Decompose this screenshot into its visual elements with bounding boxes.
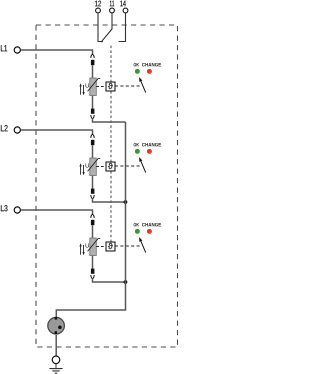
terminal 12 label: [95, 1, 101, 7]
mechanical linkage dashed line: [110, 46, 112, 243]
varistor body: [90, 238, 97, 256]
wire to bus: [93, 198, 126, 202]
thermal disconnector box: [106, 162, 115, 171]
label OK: [134, 143, 139, 146]
terminal 11 circle: [110, 8, 115, 13]
label CHANGE: [142, 143, 161, 146]
wire to ground: [55, 364, 57, 368]
U arrows down: [83, 165, 85, 173]
ground symbol: [49, 369, 62, 374]
plug pin top: [91, 140, 95, 145]
thermal disconnector box: [106, 82, 115, 91]
plug fork contact top: [91, 135, 94, 138]
LED red CHANGE: [147, 229, 152, 234]
spark gap body: [48, 317, 65, 334]
LED green OK: [135, 229, 140, 234]
wire L2 feed: [21, 130, 93, 135]
spark gap inner dot: [58, 326, 62, 330]
plug pin bottom: [91, 109, 95, 114]
varistor body: [90, 78, 97, 96]
theta symbol: [108, 163, 113, 169]
node L2 label: [1, 125, 8, 131]
thermal disconnector box: [106, 242, 115, 251]
terminal L3 circle: [14, 207, 20, 213]
plug fork contact bottom: [91, 195, 94, 198]
LED red CHANGE: [147, 149, 152, 154]
dashed link varistor to disconnector: [96, 166, 106, 168]
wire L1 feed: [21, 50, 93, 55]
label U: [86, 164, 90, 168]
wire to bus: [93, 118, 126, 122]
terminal 14 label: [120, 1, 126, 7]
state pointer arrow: [141, 81, 146, 92]
node L3 label: [1, 205, 8, 211]
wire module branch: [92, 145, 94, 188]
wire module branch: [92, 65, 94, 108]
varistor body: [90, 158, 97, 176]
varistor diagonal: [88, 79, 101, 92]
plug fork contact bottom: [91, 275, 94, 278]
label CHANGE: [142, 223, 161, 226]
plug pin top: [91, 60, 95, 65]
state pointer arrow: [141, 161, 146, 172]
label U: [86, 84, 90, 88]
label OK: [134, 63, 139, 66]
dashed link disconnector to indicator: [115, 165, 141, 167]
U arrows up: [80, 246, 82, 255]
varistor diagonal: [88, 159, 101, 172]
spark gap bottom electrode: [55, 331, 57, 334]
junction dot L2-bus: [124, 200, 128, 204]
changeover switch: contact 14 lead: [119, 13, 126, 42]
U arrows up: [80, 166, 82, 175]
earth terminal circle: [52, 356, 60, 364]
U arrows down: [83, 85, 85, 93]
plug pin top: [91, 220, 95, 225]
terminal 14 circle: [123, 8, 128, 13]
label CHANGE: [142, 63, 161, 66]
node L1 label: [1, 45, 7, 51]
terminal 11 label: [110, 1, 114, 7]
spark gap top electrode: [55, 317, 57, 320]
terminal L2 circle: [14, 127, 20, 133]
plug pin bottom: [91, 189, 95, 194]
state pointer arrow: [141, 241, 146, 252]
plug fork contact top: [91, 55, 94, 58]
label OK: [134, 223, 139, 226]
varistor diagonal: [88, 239, 101, 252]
dashed link varistor to disconnector: [96, 86, 106, 88]
U arrows down: [83, 245, 85, 253]
theta symbol: [108, 243, 113, 249]
terminal L1 circle: [14, 47, 20, 53]
LED green OK: [135, 69, 140, 74]
wire spark gap to earth terminal: [55, 335, 57, 356]
wire to bus: [93, 278, 126, 282]
dashed link disconnector to indicator: [115, 85, 141, 87]
enclosure dashed border: [36, 25, 178, 347]
plug fork contact bottom: [91, 115, 94, 118]
junction dot L3-bus: [124, 280, 128, 284]
wire module branch: [92, 225, 94, 268]
changeover switch: contact 12 lead: [98, 13, 103, 42]
dashed link disconnector to indicator: [115, 245, 141, 247]
terminal 12 circle: [96, 8, 101, 13]
LED red CHANGE: [147, 69, 152, 74]
U arrows up: [80, 86, 82, 95]
plug fork contact top: [91, 215, 94, 218]
wire L3 feed: [21, 210, 93, 215]
theta symbol: [108, 83, 113, 89]
changeover switch: common 11 lead with moving arm: [101, 13, 112, 42]
common bus wire: [56, 122, 125, 317]
dashed link varistor to disconnector: [96, 246, 106, 248]
LED green OK: [135, 149, 140, 154]
plug pin bottom: [91, 269, 95, 274]
label U: [86, 244, 90, 248]
